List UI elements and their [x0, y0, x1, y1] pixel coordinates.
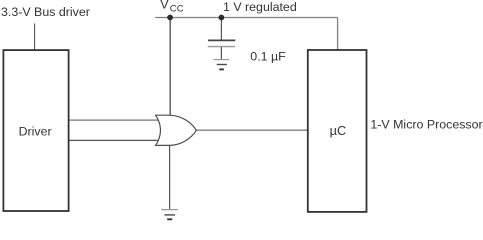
wire driver output bottom — [69, 139, 161, 141]
or-gate G1 — [156, 115, 197, 145]
node capacitor junction dot — [219, 15, 225, 21]
wire regulated supply drop to uC — [337, 18, 339, 50]
svg-text:CC: CC — [170, 4, 184, 15]
leader line from label to Driver box — [34, 24, 36, 50]
capacitor C1 bottom plate — [208, 46, 235, 48]
wire VCC rail (top horizontal) — [155, 17, 337, 19]
ground (below capacitor) — [214, 60, 230, 70]
svg-text:1 V regulated: 1 V regulated — [223, 0, 297, 14]
svg-text:3.3-V Bus driver: 3.3-V Bus driver — [1, 5, 90, 19]
driver block U1 — [3, 50, 68, 211]
wire capacitor bottom lead — [220, 47, 222, 59]
svg-text:0.1 µF: 0.1 µF — [250, 50, 286, 64]
svg-text:µC: µC — [330, 123, 347, 138]
capacitor C1 top plate — [208, 39, 235, 41]
wire VCC vertical to gate top — [169, 18, 171, 126]
uC block U2 — [308, 50, 367, 212]
svg-text:Driver: Driver — [19, 125, 52, 139]
node VCC junction dot — [167, 15, 173, 21]
wire driver output top — [69, 119, 161, 121]
wire gate bottom to ground — [169, 136, 171, 209]
wire capacitor top lead — [220, 18, 222, 41]
svg-text:V: V — [160, 0, 169, 12]
ground (below gate) — [161, 210, 178, 220]
wire gate output to uC — [196, 129, 307, 131]
svg-text:1-V Micro Processor: 1-V Micro Processor — [370, 117, 482, 131]
